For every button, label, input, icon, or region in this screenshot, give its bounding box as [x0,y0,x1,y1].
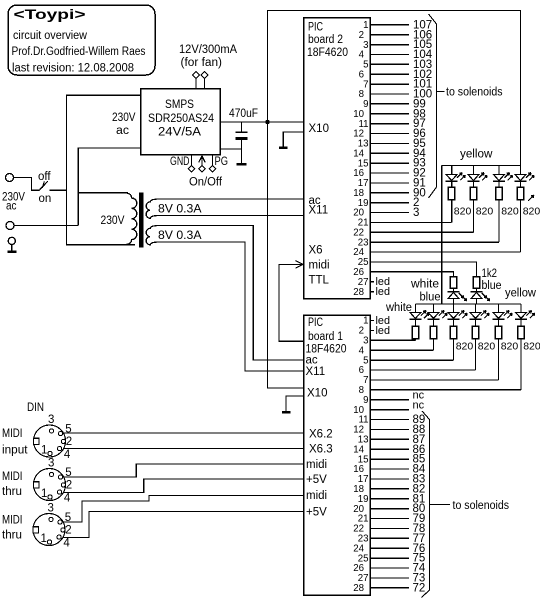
svg-text:off: off [38,171,51,183]
24V bus top wire [268,11,521,166]
wire MIDI thru2 pin4 to +5V [63,512,304,538]
svg-text:820: 820 [501,341,519,353]
svg-text:8V 0.3A: 8V 0.3A [158,204,202,216]
board1 X10 ground bar [282,411,291,413]
LED row3 col2 with resistor to board1 pin 4 [433,304,435,312]
svg-text:On/Off: On/Off [189,177,223,189]
svg-text:28: 28 [353,583,364,594]
LED row3 col3 with resistor to board1 pin 5 [453,304,455,312]
SMPS PG pin diamond [209,165,216,172]
svg-text:DIN: DIN [27,402,44,414]
capacitor C1 top lead [241,122,243,131]
wire fan pin2 to SMPS [204,78,206,88]
wire neutral branch to transformer primary [78,192,128,194]
svg-text:3: 3 [48,502,54,514]
svg-text:+5V: +5V [306,507,327,519]
svg-text:4: 4 [63,537,70,549]
input terminal circle neutral [6,222,14,230]
title box frame [8,5,155,75]
svg-text:3: 3 [413,207,419,219]
resistor white column [450,277,457,289]
LED row3 col1 with resistor to board1 pin 3 [414,304,416,312]
wire MIDI thru2 pin5 to midi [63,496,304,523]
svg-text:midi: midi [306,459,327,471]
svg-text:820: 820 [454,206,472,218]
board2 X10 ground bar [279,147,288,149]
fan pin diamond 2 [201,72,208,79]
junction dot 24V bus [265,120,269,124]
svg-text:ac: ac [306,355,318,367]
board2 X10 ground stub [283,132,303,147]
svg-text:230V: 230V [112,112,136,124]
svg-text:2: 2 [66,436,72,448]
LED row3 col4 with resistor to board1 pin 6 [475,304,477,312]
svg-text:Prof.Dr.Godfried-Willem Raes: Prof.Dr.Godfried-Willem Raes [12,46,146,58]
svg-text:820: 820 [523,206,540,218]
transformer primary coil [124,193,137,245]
row1 anode bus [442,165,521,167]
wire MIDI thru1 pin4 to +5V [64,479,304,493]
wire 8V sec1 bottom to board2 X11 [159,215,304,217]
switch blade [39,181,48,190]
svg-text:X11: X11 [309,204,329,216]
svg-text:820: 820 [501,206,519,218]
svg-text:nc: nc [413,399,425,411]
svg-text:board 2: board 2 [308,34,343,46]
svg-text:midi: midi [306,490,327,502]
svg-text:1: 1 [41,444,47,456]
svg-text:ac: ac [6,201,17,213]
PIC board 1 box [304,315,371,595]
svg-text:X6.2: X6.2 [309,428,333,440]
svg-text:board 1: board 1 [308,331,343,343]
svg-text:24V/5A: 24V/5A [158,127,201,139]
stray arrow right of row1 col4 resistor [528,195,534,201]
svg-text:X6: X6 [309,245,323,257]
wire MIDI input pin5 to X6.2 [64,432,304,434]
board1 brace [422,411,430,598]
wire SMPS 0V to capacitor [220,148,242,150]
wire live to switch [14,178,39,191]
svg-text:MIDI: MIDI [2,515,23,527]
transformer core [139,193,144,248]
svg-text:28: 28 [353,287,364,298]
MIDI input DIN connector [34,425,66,457]
LED blue (up) sec2 [476,288,478,291]
wire pin25 to blue column [370,262,476,277]
svg-text:(for fan): (for fan) [181,57,223,69]
svg-text:1: 1 [41,488,47,500]
capacitor C1 plates [236,131,248,133]
svg-text:yellow: yellow [460,149,493,161]
board2 to-solenoids tick [437,90,445,92]
SMPS GND pin diamond [188,165,195,172]
earth terminal circle [8,237,15,244]
SMPS GND pin wire [191,155,193,166]
svg-text:5: 5 [65,424,71,436]
svg-text:led: led [376,286,391,298]
wire 8V sec2 bottom to board1 X11 [159,242,304,371]
svg-text:circuit overview: circuit overview [13,30,88,42]
svg-text:820: 820 [476,206,494,218]
resistor 1k2 blue column [473,277,480,289]
svg-text:thru: thru [2,530,22,542]
PIC board 2 box [304,18,371,299]
wire 8V sec1 top to board2 ac [159,198,304,200]
svg-text:white: white [385,302,412,314]
board2 pin stubs 1-20 27-28 [370,24,409,26]
LED yellow 3 with 820 resistor to pin 23 [498,166,500,175]
LED row3 col5 with resistor to board1 pin 7 [498,304,500,312]
wire pin26 to white column [370,272,453,277]
svg-text:SMPS: SMPS [165,99,194,111]
SMPS OnOff pin diamond [199,165,206,172]
svg-text:2: 2 [66,480,72,492]
svg-text:to solenoids: to solenoids [453,500,510,512]
svg-text:thru: thru [2,486,22,498]
svg-text:on: on [39,193,52,205]
svg-text:PG: PG [215,156,229,168]
svg-text:820: 820 [478,341,496,353]
svg-text:18F4620: 18F4620 [307,47,348,59]
svg-text:X6.3: X6.3 [309,444,333,456]
svg-text:X10: X10 [309,123,329,135]
board2 midi TTL input arrow wire [279,264,304,341]
earth wire [11,245,13,251]
wire switch to live bus [50,189,67,191]
svg-text:blue: blue [482,280,502,292]
svg-text:midi: midi [309,260,330,272]
MIDI thru 1 DIN connector [34,469,66,501]
svg-text:470uF: 470uF [229,108,258,120]
LED yellow 4 with 820 resistor to pin 24 [520,166,522,175]
svg-text:2: 2 [65,525,71,537]
SMPS OnOff pin wire with up arrow [201,155,203,166]
board1 pin stubs [370,320,374,322]
board2 brace [429,14,437,198]
LED yellow 1 with 820 resistor to pin 21 [451,166,453,175]
wire MIDI thru1 pin5 to midi [64,464,304,477]
SMPS box [141,89,221,155]
LED row3 col6 with resistor to board1 pin 8 [520,304,522,312]
svg-text:820: 820 [456,341,474,353]
svg-text:GND: GND [170,156,190,168]
svg-text:blue: blue [420,292,441,304]
wire neutral to bus [14,225,78,227]
svg-text:yellow: yellow [505,288,537,300]
wire fan pin1 to SMPS [195,78,197,88]
LED white (up) sec2 [453,288,455,291]
svg-text:TTL: TTL [309,275,330,287]
svg-text:4: 4 [64,492,71,504]
svg-text:<Toypi>: <Toypi> [14,7,86,22]
input terminal circle live [6,174,14,182]
svg-text:MIDI: MIDI [2,471,23,483]
svg-text:ac: ac [116,125,129,137]
wire SMPS 24V output to board2 X10 [220,121,304,123]
SMPS PG pin wire [212,155,214,166]
wire neutral vertical to SMPS [78,148,140,226]
svg-text:X11: X11 [306,366,326,378]
earth ground bar [7,251,16,253]
transformer secondary coil 1 [146,199,160,218]
svg-text:to solenoids: to solenoids [446,87,503,99]
svg-text:PIC: PIC [308,317,323,329]
24V bus vertical to board1 X10 [268,122,304,388]
svg-text:230V: 230V [101,215,125,227]
wire 8V sec2 top to board1 ac [159,226,304,361]
svg-text:white: white [410,279,439,291]
wire MIDI input pin4 to X6.3 [64,448,304,450]
svg-text:72: 72 [413,582,426,594]
svg-text:3: 3 [48,414,54,426]
fan pin diamond 1 [193,72,200,79]
svg-text:8V 0.3A: 8V 0.3A [158,230,202,242]
transformer secondary coil 2 [146,226,160,245]
MIDI thru 2 DIN connector [33,514,65,546]
svg-text:1: 1 [41,533,47,545]
LED yellow 2 with 820 resistor to pin 22 [473,166,475,175]
svg-text:last revision: 12.08.2008: last revision: 12.08.2008 [12,62,134,74]
svg-text:MIDI: MIDI [2,428,23,440]
svg-text:input: input [2,445,28,457]
svg-text:SDR250AS24: SDR250AS24 [148,113,215,125]
wire live vertical to SMPS and transformer [66,95,140,244]
ground bar below capacitor [237,163,247,165]
svg-text:4: 4 [64,449,71,461]
svg-text:PIC: PIC [308,22,323,34]
capacitor C1 bottom lead [241,140,243,163]
svg-text:3: 3 [48,457,54,469]
row3 anode bus [415,303,521,305]
svg-text:+5V: +5V [306,474,327,486]
svg-text:820: 820 [523,341,540,353]
wire row1 bus to row3 bus [441,166,443,305]
svg-text:1k2: 1k2 [482,268,498,280]
svg-text:led: led [376,325,391,337]
board1 to-solenoids tick [430,504,451,506]
svg-text:12V/300mA: 12V/300mA [179,44,237,56]
svg-text:X10: X10 [307,388,327,400]
board1 X10 ground stub [286,396,304,411]
